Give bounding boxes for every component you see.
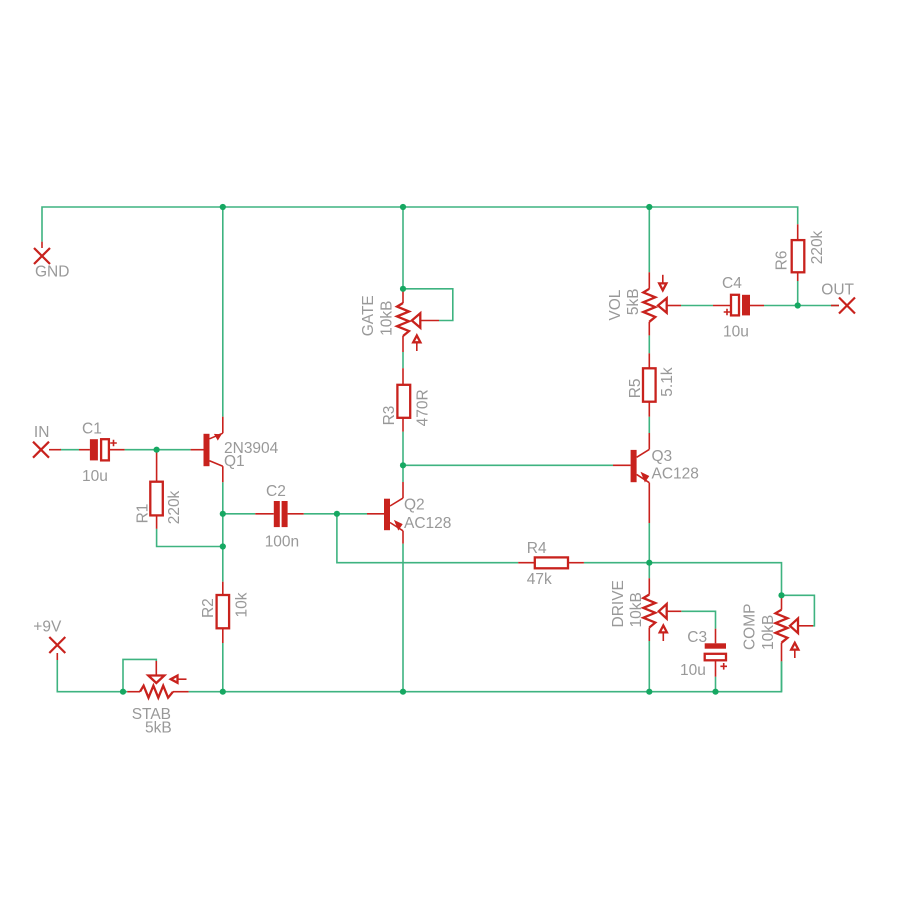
- svg-text:GND: GND: [35, 264, 69, 281]
- svg-text:R6: R6: [774, 250, 791, 270]
- svg-text:R5: R5: [627, 378, 644, 398]
- resistor R5 5.1k: [627, 353, 676, 416]
- potentiometer STAB 5kB: [127, 661, 188, 736]
- junction node top rail / mid vertical: [400, 204, 406, 210]
- junction node R1 bottom / emitter column: [220, 543, 226, 549]
- svg-text:R3: R3: [381, 406, 398, 426]
- svg-text:COMP: COMP: [742, 604, 759, 651]
- wire top GND rail: [42, 207, 798, 242]
- junction node C4 / R6 / OUT: [795, 302, 801, 308]
- wire R5 to Q3 collector: [648, 417, 650, 433]
- svg-text:R4: R4: [527, 540, 547, 557]
- junction node Q3 emitter / R4 / DRIVE: [646, 560, 652, 566]
- output port OUT: [821, 282, 855, 314]
- input port IN: [33, 424, 61, 458]
- junction node C1 / R1 / Q1 base: [154, 447, 160, 453]
- power port +9V: [33, 619, 65, 660]
- svg-text:R2: R2: [200, 598, 217, 618]
- svg-text:5kB: 5kB: [625, 288, 642, 315]
- junction node top rail / Q1 collector: [220, 204, 226, 210]
- transistor Q3 AC128: [613, 433, 699, 523]
- svg-text:5kB: 5kB: [145, 719, 172, 736]
- wire R6 bottom to OUT node: [797, 281, 799, 306]
- svg-text:10u: 10u: [723, 324, 749, 341]
- resistor R3 470R: [381, 368, 432, 431]
- wire C4 to OUT node: [764, 305, 839, 307]
- wire mid vertical to GATE: [402, 207, 404, 289]
- transistor Q2 AC128: [367, 482, 451, 544]
- wire C3 bottom to rail: [715, 677, 717, 692]
- wire C2 to Q2 base: [304, 513, 367, 515]
- svg-text:470R: 470R: [415, 389, 432, 426]
- wire node to C2: [223, 513, 256, 515]
- resistor R6 220k: [774, 224, 826, 281]
- svg-text:10kB: 10kB: [628, 592, 645, 627]
- wire STAB wiper loop: [123, 659, 156, 691]
- potentiometer VOL 5kB: [607, 272, 681, 335]
- svg-text:Q3: Q3: [652, 448, 673, 465]
- wire C1 to Q1 base: [125, 449, 191, 451]
- wire node to Q3 base: [403, 464, 613, 466]
- potentiometer GATE 10kB: [360, 289, 439, 352]
- svg-text:GATE: GATE: [360, 295, 377, 336]
- wire COMP wiper loop: [782, 595, 815, 626]
- svg-text:C1: C1: [82, 421, 102, 438]
- junction node Q1 emitter / C2: [220, 511, 226, 517]
- svg-text:R1: R1: [135, 504, 152, 524]
- capacitor C1 10u: [79, 421, 125, 486]
- svg-text:10k: 10k: [234, 592, 251, 617]
- wire GATE wiper loop: [403, 289, 453, 321]
- capacitor C3 10u: [680, 629, 727, 679]
- capacitor C4 10u: [713, 275, 764, 341]
- svg-text:5.1k: 5.1k: [659, 367, 676, 397]
- potentiometer COMP 10kB: [742, 595, 813, 661]
- wire R1 bottom to emitter node: [157, 529, 223, 547]
- svg-text:AC128: AC128: [652, 466, 699, 483]
- transistor Q1 2N3904: [191, 417, 279, 483]
- ground port GND: [34, 242, 69, 281]
- junction node top rail / right vertical: [646, 204, 652, 210]
- capacitor C2 100n: [255, 483, 303, 551]
- svg-text:VOL: VOL: [607, 289, 624, 320]
- junction node STAB loop / rail: [120, 689, 126, 695]
- svg-text:+9V: +9V: [33, 619, 62, 636]
- svg-text:C2: C2: [266, 483, 286, 500]
- wire R3 to Q2 collector node: [402, 432, 404, 482]
- wire IN to C1: [60, 449, 79, 451]
- svg-text:DRIVE: DRIVE: [610, 580, 627, 627]
- wire R4 to COMP top: [584, 563, 782, 596]
- svg-text:10kB: 10kB: [760, 615, 777, 650]
- wire VOL to R5: [648, 335, 650, 353]
- junction node R2 / rail: [220, 689, 226, 695]
- wire +9V riser: [57, 660, 127, 692]
- wire Q3 emitter to DRIVE node: [648, 523, 650, 578]
- resistor R1 220k: [135, 450, 183, 529]
- wire bottom supply rail: [189, 661, 782, 691]
- wire Q1 collector to top rail: [222, 207, 224, 417]
- svg-text:Q2: Q2: [404, 497, 425, 514]
- wire GATE to R3: [402, 352, 404, 368]
- svg-text:AC128: AC128: [404, 515, 451, 532]
- svg-text:220k: 220k: [809, 230, 826, 264]
- svg-text:10u: 10u: [82, 468, 108, 485]
- junction node Q2 emitter / rail: [400, 689, 406, 695]
- junction node COMP top / loop: [778, 592, 784, 598]
- svg-text:C4: C4: [722, 275, 742, 292]
- junction node R3 / Q2 collector / Q3 base: [400, 462, 406, 468]
- svg-text:10u: 10u: [680, 662, 706, 679]
- resistor R4 47k: [518, 540, 584, 588]
- svg-text:10kB: 10kB: [379, 300, 396, 335]
- svg-text:220k: 220k: [166, 490, 183, 524]
- junction node C3 / rail: [712, 689, 718, 695]
- svg-text:OUT: OUT: [821, 282, 854, 299]
- junction node C2 / Q2 base / R4: [334, 511, 340, 517]
- wire Q2 emitter to bottom rail: [402, 544, 404, 692]
- svg-text:IN: IN: [34, 424, 50, 441]
- svg-text:100n: 100n: [265, 533, 299, 550]
- wire Q1 emitter down to R2: [222, 482, 224, 582]
- svg-text:Q1: Q1: [224, 453, 245, 470]
- wire COMP bottom to rail: [781, 661, 783, 691]
- wire DRIVE wiper to C3: [681, 611, 715, 628]
- wire VOL wiper to C4: [681, 305, 713, 307]
- wire Q2 base node down to R4: [337, 514, 518, 563]
- junction node GATE top / loop: [400, 286, 406, 292]
- resistor R2 10k: [200, 582, 251, 692]
- svg-text:47k: 47k: [527, 571, 552, 588]
- wire right vertical to VOL: [648, 207, 650, 272]
- potentiometer DRIVE 10kB: [610, 578, 681, 691]
- junction node DRIVE / rail: [646, 689, 652, 695]
- svg-text:C3: C3: [687, 629, 707, 646]
